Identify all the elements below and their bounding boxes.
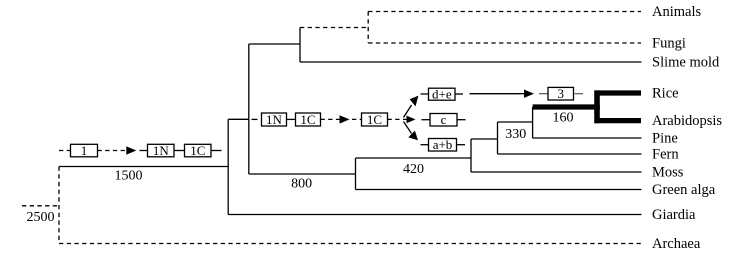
wire root stub 2500 dashed — [22, 205, 59, 207]
svg-text:800: 800 — [291, 177, 312, 192]
wire stub after box 3 — [575, 93, 584, 95]
svg-text:3: 3 — [558, 86, 565, 101]
svg-text:1500: 1500 — [115, 168, 143, 183]
box 1C second row2 — [362, 112, 388, 127]
svg-text:d+e: d+e — [432, 86, 452, 101]
wire V1 to V2 branch — [228, 118, 249, 120]
node V1 vertical (1500 node) — [227, 119, 229, 214]
wire Giardia branch — [228, 214, 641, 216]
annotation row 2 on branch to 800 node — [252, 118, 403, 120]
wire Green alga branch — [356, 189, 642, 191]
svg-text:1N: 1N — [266, 112, 283, 127]
node 420 vertical — [355, 158, 357, 190]
wire stub after a+b — [457, 144, 466, 146]
wire 330 top branch — [498, 121, 533, 123]
node 330 vertical — [497, 122, 499, 154]
svg-text:a+b: a+b — [433, 137, 453, 152]
svg-text:Fungi: Fungi — [652, 36, 686, 52]
box 1C row1 — [185, 143, 212, 158]
wire dashed after 1C2 to split — [388, 118, 403, 120]
svg-text:Rice: Rice — [652, 86, 679, 102]
wire moss-node to 330 branch — [471, 138, 498, 140]
svg-text:1C: 1C — [300, 112, 315, 127]
wire connector between 1N and 1C — [174, 150, 185, 152]
wire stub after d+e — [455, 93, 463, 95]
box 3 — [548, 86, 574, 101]
svg-text:160: 160 — [553, 111, 574, 126]
svg-text:2500: 2500 — [27, 210, 55, 225]
wire Animals branch dashed — [368, 11, 641, 13]
arrow d+e to 3 — [470, 90, 535, 98]
svg-text:Moss: Moss — [652, 165, 684, 181]
wire stub before a+b — [421, 144, 429, 146]
node thick rice-arabidopsis vertical — [594, 90, 600, 123]
box 1C row2 — [296, 112, 321, 127]
wire Arabidopsis branch thick — [595, 118, 642, 123]
wire stub after c — [457, 119, 466, 121]
wire connector 1N-1C row2 — [287, 118, 296, 120]
wire Moss branch — [471, 171, 642, 173]
wire 1500 branch — [59, 166, 228, 168]
svg-text:420: 420 — [403, 162, 424, 177]
wire Fungi branch dashed — [368, 42, 641, 44]
wire Fern branch — [498, 153, 642, 155]
node animals-fungi vertical dashed — [367, 12, 369, 44]
svg-text:1N: 1N — [153, 143, 170, 158]
svg-text:Animals: Animals — [652, 4, 701, 20]
wire dash after V2 — [252, 118, 258, 120]
box 1N row1 — [148, 143, 175, 158]
stubs around fan boxes — [421, 94, 466, 145]
wire V2 to V3 branch — [249, 43, 300, 45]
wire 800 to 420 branch — [249, 173, 356, 175]
svg-text:Fern: Fern — [652, 147, 679, 163]
box 1 — [71, 143, 98, 158]
svg-text:330: 330 — [505, 127, 526, 142]
box a+b — [429, 137, 457, 152]
wire dashed arrow shaft row2 — [321, 118, 340, 120]
arrowhead row 1 — [126, 146, 136, 154]
svg-text:1C: 1C — [190, 143, 205, 158]
svg-text:Green alga: Green alga — [652, 182, 716, 198]
arrowhead row 2 — [340, 115, 350, 123]
wire stub before box 3 — [539, 93, 548, 95]
wire solid stub before box 1N — [140, 150, 148, 152]
wire 420 top branch — [356, 157, 472, 159]
svg-text:c: c — [441, 112, 447, 127]
wire stub before c — [422, 119, 431, 121]
node moss vertical — [470, 139, 472, 172]
box 1N row2 — [262, 112, 287, 127]
svg-text:1: 1 — [81, 143, 88, 158]
arrow middle to c — [403, 116, 416, 124]
svg-text:Giardia: Giardia — [652, 207, 696, 223]
box d+e — [429, 86, 456, 101]
wire dashed after arrow row2 — [352, 118, 362, 120]
wire animals+fungi stem dashed — [300, 27, 368, 29]
wire Slime mold branch — [300, 61, 642, 63]
arrow down to a+b — [404, 122, 419, 141]
svg-text:Archaea: Archaea — [652, 236, 701, 252]
node 160 vertical — [532, 107, 534, 138]
wire Pine branch — [533, 137, 642, 139]
wire Rice branch thick — [595, 90, 642, 95]
arrow up to d+e — [404, 96, 419, 118]
svg-text:Arabidopsis: Arabidopsis — [652, 113, 722, 129]
wire dashed arrow shaft after box 1 — [98, 150, 127, 152]
svg-text:Slime mold: Slime mold — [652, 55, 720, 71]
wire thick stem to rice-arabidopsis — [533, 104, 600, 109]
node root vertical dashed — [58, 167, 60, 244]
wire Archaea branch dashed — [59, 243, 641, 245]
svg-text:Pine: Pine — [652, 131, 678, 147]
node V3 vertical (opisthokont node) — [299, 28, 301, 63]
box c — [430, 112, 457, 127]
wire dashed lead-in to box 1 — [59, 150, 71, 152]
wire stub after 1C row1 — [211, 150, 222, 152]
annotation row 1 on 1500 branch — [59, 150, 222, 152]
wire stub before d+e — [421, 93, 429, 95]
svg-text:1C: 1C — [367, 112, 382, 127]
node V2 vertical (800 node) — [248, 44, 250, 174]
